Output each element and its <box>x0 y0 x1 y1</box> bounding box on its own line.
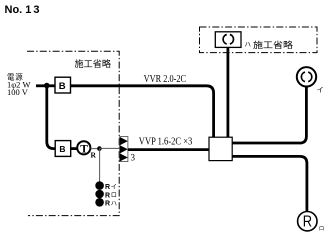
wire: ceiling fixture ハ down to junction box <box>226 48 229 138</box>
dash-dot boundary 施工省略 (top-right box) <box>200 27 318 53</box>
breaker B2 <box>55 141 70 157</box>
switch Rイ <box>95 181 104 190</box>
wire: relay to junction box (VVP run) <box>128 148 209 151</box>
lamp receptacle R <box>298 212 317 231</box>
svg-text:ハ: ハ <box>111 201 117 208</box>
wire: node to remote relay <box>99 147 119 149</box>
svg-text:B: B <box>59 144 65 154</box>
svg-text:VVP 1.6-2C ×3: VVP 1.6-2C ×3 <box>139 136 193 147</box>
svg-text:R: R <box>105 184 110 191</box>
wire: B2 to transformer <box>71 147 78 150</box>
svg-text:ハ: ハ <box>245 42 252 49</box>
svg-text:ロ: ロ <box>111 192 117 199</box>
svg-text:VVR 2.0-2C: VVR 2.0-2C <box>144 74 187 85</box>
transformer T (remote-control) <box>77 141 90 154</box>
wire: junction box right to ceiling fixture イ <box>232 87 306 143</box>
svg-text:イ: イ <box>111 184 117 191</box>
wire: node to breaker B1 <box>47 84 55 87</box>
wire: node down to switches <box>99 149 101 182</box>
node: relay branch dot <box>97 146 102 151</box>
wire: node down and corner right to breaker B2 <box>47 86 55 149</box>
svg-text:R: R <box>303 214 312 231</box>
svg-text:100 V: 100 V <box>7 87 29 97</box>
breaker B1 <box>55 77 71 93</box>
svg-text:施工省略: 施工省略 <box>75 58 112 69</box>
svg-text:T: T <box>80 143 88 155</box>
svg-text:R: R <box>105 192 110 199</box>
ceiling fixture ハ (angular hook receptacle) <box>215 32 241 48</box>
svg-text:ロ: ロ <box>319 227 325 233</box>
dash-dot boundary 施工省略 (left box) <box>27 51 119 215</box>
switch Rロ <box>95 190 104 199</box>
node: source junction dot <box>44 83 50 89</box>
wire: transformer to node <box>91 148 100 150</box>
wire: junction box right, corner down to lamp R <box>232 156 307 212</box>
svg-text:B: B <box>59 81 66 92</box>
svg-text:施工省略: 施工省略 <box>253 40 294 50</box>
wire: VVR run from B1, corner down to junction box <box>71 86 214 137</box>
ceiling fixture イ (round hook receptacle) <box>297 67 316 86</box>
svg-text:3: 3 <box>131 153 136 163</box>
wire: source stub to node <box>36 84 47 87</box>
svg-text:No.13: No.13 <box>5 4 40 16</box>
svg-text:R: R <box>91 151 97 160</box>
svg-text:R: R <box>105 201 110 208</box>
remote-control relay (3 units) <box>120 137 128 162</box>
switch Rハ <box>95 198 104 207</box>
junction box <box>209 137 232 160</box>
svg-text:イ: イ <box>317 86 324 94</box>
